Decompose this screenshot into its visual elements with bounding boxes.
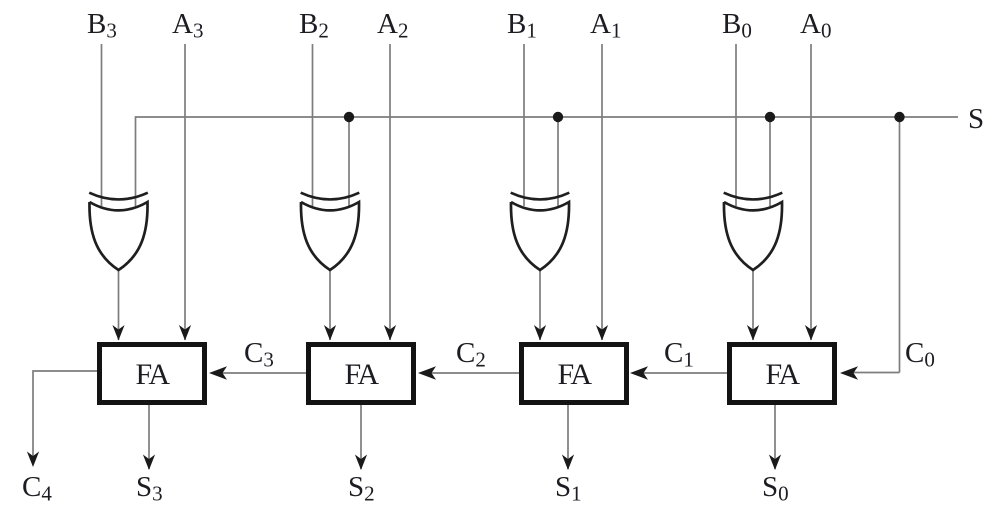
wire A1 vertical [601, 44, 603, 340]
wire B2 vertical [312, 44, 314, 206]
wire C0 vertical from S bus [899, 117, 901, 373]
wire S drop to XOR4 [769, 117, 771, 206]
arrowhead XOR1 output into FA3 [112, 325, 124, 341]
svg-text:B3: B3 [87, 8, 117, 43]
arrowhead C3 into FA3 [209, 366, 227, 380]
arrowhead A0 into FA0 [805, 325, 817, 341]
full adder FA1 box [522, 345, 627, 403]
xor-gate X1 [89, 193, 148, 270]
wire XOR4 output [752, 270, 754, 340]
wire B3 vertical [101, 44, 103, 206]
node junction dot on S bus above XOR2 [344, 112, 354, 122]
wire S0 output [774, 405, 776, 469]
svg-text:A2: A2 [377, 8, 408, 43]
wire S3 output [148, 405, 150, 469]
node junction dot on S bus above XOR4 [765, 112, 775, 122]
arrowhead XOR2 output into FA2 [324, 325, 336, 341]
wire B0 vertical [735, 44, 737, 206]
wire S horizontal bus [136, 116, 959, 118]
wire S drop to XOR3 [557, 117, 559, 206]
svg-text:FA: FA [135, 358, 170, 391]
svg-text:A0: A0 [800, 8, 831, 43]
arrowhead A2 into FA2 [384, 325, 396, 341]
arrowhead C4 down [27, 452, 39, 468]
arrowhead C1 into FA1 [630, 366, 648, 380]
svg-text:S1: S1 [555, 471, 582, 506]
svg-text:C3: C3 [244, 337, 274, 372]
arrowhead XOR4 output into FA0 [747, 325, 759, 341]
wire A0 vertical [810, 44, 812, 340]
svg-text:B1: B1 [507, 8, 537, 43]
svg-text:B0: B0 [722, 8, 752, 43]
wire C3 carry [212, 372, 306, 374]
arrowhead A3 into FA3 [179, 325, 191, 341]
svg-text:C0: C0 [905, 337, 935, 372]
svg-text:S3: S3 [136, 471, 163, 506]
wire S2 output [360, 405, 362, 469]
xor-gate X2 [301, 193, 360, 270]
svg-text:S: S [968, 103, 984, 135]
wire S1 output [567, 405, 569, 469]
wire C0 horizontal into FA4 [843, 372, 900, 374]
wire A3 vertical [184, 44, 186, 340]
arrowhead S1 down [562, 455, 574, 471]
xor-gate X4 [724, 193, 783, 270]
wire C2 carry [421, 372, 519, 374]
xor-gate X3 [511, 193, 570, 270]
svg-text:C2: C2 [456, 337, 486, 372]
arrowhead S3 down [143, 455, 155, 471]
wire S drop to XOR2 [348, 117, 350, 206]
wire A2 vertical [389, 44, 391, 340]
wire S drop to XOR1 [135, 116, 137, 206]
arrowhead C0 into FA0 [840, 366, 858, 380]
svg-text:A3: A3 [172, 8, 203, 43]
svg-text:FA: FA [557, 358, 592, 391]
arrowhead A1 into FA1 [596, 325, 608, 341]
arrowhead S2 down [355, 455, 367, 471]
svg-text:C4: C4 [22, 471, 52, 506]
svg-text:B2: B2 [299, 8, 329, 43]
svg-text:S0: S0 [762, 471, 789, 506]
svg-text:S2: S2 [348, 471, 375, 506]
svg-text:FA: FA [765, 358, 800, 391]
svg-text:FA: FA [344, 358, 379, 391]
node junction dot on S bus at C0 branch [894, 112, 904, 122]
full adder FA0 box [730, 345, 835, 403]
wire C4 out left of FA1 [33, 371, 97, 465]
wire XOR3 output [539, 270, 541, 340]
svg-text:A1: A1 [590, 8, 621, 43]
full adder FA3 box (bits 3) [100, 345, 205, 403]
arrowhead C2 into FA2 [418, 366, 436, 380]
arrowhead S0 down [769, 455, 781, 471]
wire C1 carry [633, 372, 727, 374]
svg-text:C1: C1 [664, 337, 694, 372]
wire XOR2 output [329, 270, 331, 340]
node junction dot on S bus above XOR3 [553, 112, 563, 122]
full adder FA2 box [309, 345, 414, 403]
wire B1 vertical [523, 44, 525, 206]
wire XOR1 output [118, 270, 120, 340]
arrowhead XOR3 output into FA1 [534, 325, 546, 341]
